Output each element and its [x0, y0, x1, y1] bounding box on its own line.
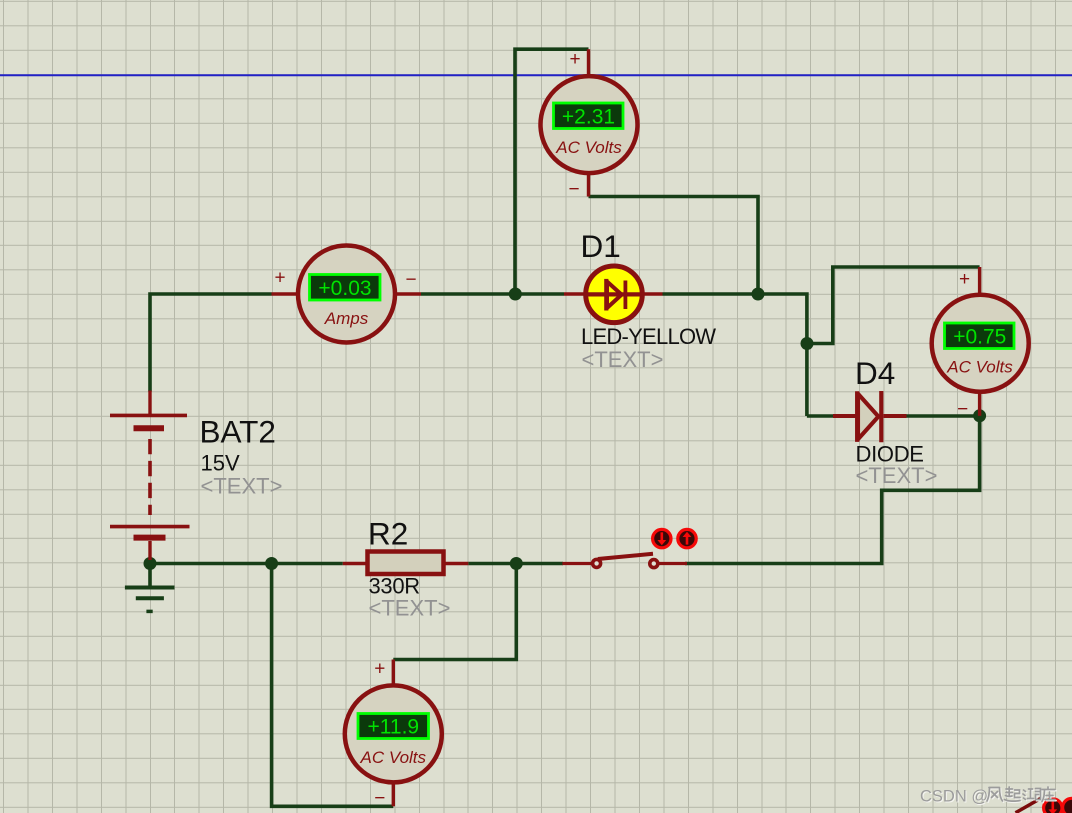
svg-text:+0.75: +0.75 [953, 326, 1006, 349]
switch actuator down arrow [653, 529, 671, 547]
watermark CSDN [920, 787, 989, 806]
wire battery positive up to ammeter [150, 294, 272, 392]
wire R2 right to junction [468, 562, 516, 566]
junction node right branch [801, 337, 814, 350]
svg-text:AC Volts: AC Volts [555, 138, 622, 157]
battery BAT2 [110, 391, 190, 561]
wire ammeter to LED D1 [421, 292, 564, 296]
svg-text:+: + [959, 269, 970, 290]
junction node R2 right [510, 557, 523, 570]
svg-text:15V: 15V [201, 451, 240, 476]
wire blue bus line [0, 74, 1072, 76]
wire top voltmeter minus to node [589, 197, 759, 295]
resistor R2 [343, 552, 469, 575]
wire mid junction down to bottom voltmeter minus [272, 564, 394, 807]
svg-text:−: − [957, 399, 968, 420]
svg-text:+0.03: +0.03 [318, 277, 371, 300]
wire LED D1 to right corner down [663, 294, 807, 416]
LED D1 [564, 266, 663, 323]
switch SW [562, 554, 687, 568]
junction node at LED output [752, 288, 765, 301]
bottom voltmeter (AC Volts) [345, 659, 442, 810]
partial switch actuator down arrow bottom right [1044, 799, 1062, 813]
svg-text:<TEXT>: <TEXT> [856, 463, 938, 488]
wire R2 left to mid junction [272, 562, 343, 566]
svg-text:AC Volts: AC Volts [360, 748, 427, 767]
watermark hanzi strokes [987, 787, 1056, 803]
svg-text:AC Volts: AC Volts [946, 357, 1013, 376]
svg-text:+11.9: +11.9 [368, 716, 420, 739]
partial switch actuator clipped at right edge [1063, 798, 1072, 813]
svg-text:−: − [374, 788, 385, 809]
ammeter meter (Amps) [272, 246, 422, 343]
svg-text:<TEXT>: <TEXT> [369, 596, 451, 621]
svg-text:+: + [374, 659, 385, 680]
svg-text:D1: D1 [581, 228, 621, 264]
right voltmeter (AC Volts) [932, 267, 1029, 420]
svg-text:+: + [274, 268, 285, 289]
svg-text:+: + [569, 49, 580, 70]
svg-text:+2.31: +2.31 [562, 106, 615, 129]
wire right voltmeter minus down to switch [685, 416, 980, 564]
svg-text:−: − [405, 270, 416, 291]
wire diode D4 to right voltmeter minus node [907, 414, 980, 418]
switch actuator up arrow [678, 529, 696, 547]
svg-text:R2: R2 [368, 515, 408, 551]
junction node battery ground [144, 557, 157, 570]
wire junction down to bottom voltmeter plus [393, 564, 516, 660]
junction node right voltmeter minus [973, 409, 986, 422]
top voltmeter (AC Volts) [541, 49, 638, 200]
junction node on main wire [509, 288, 522, 301]
svg-text:LED-YELLOW: LED-YELLOW [581, 324, 716, 349]
diode D4 [833, 391, 907, 442]
partial switch lever bottom right corner [1016, 799, 1041, 813]
wire switch to R2 junction [516, 562, 563, 566]
wire branch up to top voltmeter plus [515, 49, 589, 294]
svg-text:CSDN @: CSDN @ [920, 787, 988, 805]
wire battery negative to mid junction [150, 562, 272, 566]
svg-text:<TEXT>: <TEXT> [201, 473, 283, 498]
svg-text:<TEXT>: <TEXT> [582, 347, 664, 372]
wire corner to diode D4 [807, 414, 834, 418]
svg-text:Amps: Amps [324, 309, 369, 328]
ground [125, 564, 175, 612]
svg-text:BAT2: BAT2 [200, 413, 276, 449]
wire node to right voltmeter plus [807, 267, 980, 344]
svg-text:−: − [568, 179, 579, 200]
junction node mid bottom row [265, 557, 278, 570]
svg-text:D4: D4 [855, 355, 895, 391]
